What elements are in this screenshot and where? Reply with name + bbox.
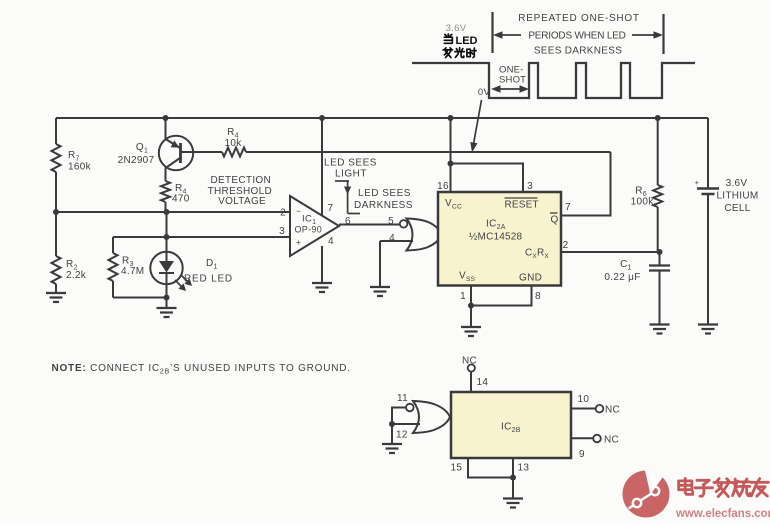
svg-text:DARKNESS: DARKNESS bbox=[354, 200, 413, 211]
svg-text:9: 9 bbox=[579, 449, 585, 460]
svg-text:12: 12 bbox=[396, 430, 408, 441]
svg-text:470: 470 bbox=[172, 194, 190, 205]
svg-text:LITHIUM: LITHIUM bbox=[716, 191, 758, 202]
svg-text:VOLTAGE: VOLTAGE bbox=[218, 196, 266, 207]
svg-text:SEES DARKNESS: SEES DARKNESS bbox=[534, 46, 622, 57]
svg-text:RED LED: RED LED bbox=[184, 274, 233, 285]
svg-text:REPEATED ONE-SHOT: REPEATED ONE-SHOT bbox=[518, 13, 639, 24]
svg-text:6: 6 bbox=[345, 216, 351, 227]
svg-text:NOTE: CONNECT IC2B’S UNUSED IN: NOTE: CONNECT IC2B’S UNUSED INPUTS TO GR… bbox=[52, 363, 351, 376]
svg-text:7: 7 bbox=[328, 203, 334, 214]
svg-text:14: 14 bbox=[477, 377, 489, 388]
svg-text:Q: Q bbox=[551, 215, 559, 226]
svg-text:2: 2 bbox=[280, 208, 286, 219]
svg-text:16: 16 bbox=[437, 181, 449, 192]
svg-text:LED SEES: LED SEES bbox=[324, 158, 377, 169]
svg-text:5: 5 bbox=[388, 216, 394, 227]
svg-text:13: 13 bbox=[518, 463, 530, 474]
svg-text:PERIODS WHEN LED: PERIODS WHEN LED bbox=[528, 31, 625, 42]
svg-text:SHOT: SHOT bbox=[499, 75, 526, 86]
svg-text:−: − bbox=[296, 206, 301, 216]
svg-text:CELL: CELL bbox=[724, 203, 750, 214]
svg-text:8: 8 bbox=[535, 291, 541, 302]
svg-text:+: + bbox=[296, 237, 301, 247]
svg-text:www.elecfans.com: www.elecfans.com bbox=[675, 506, 770, 520]
svg-text:LIGHT: LIGHT bbox=[335, 169, 367, 180]
svg-text:+: + bbox=[695, 178, 700, 187]
svg-text:NC: NC bbox=[604, 435, 619, 446]
svg-text:DETECTION: DETECTION bbox=[211, 175, 271, 186]
svg-text:10k: 10k bbox=[224, 138, 242, 149]
svg-text:OP-90: OP-90 bbox=[295, 225, 323, 235]
svg-text:10: 10 bbox=[578, 394, 590, 405]
svg-text:0.22 μF: 0.22 μF bbox=[604, 272, 640, 283]
svg-text:2: 2 bbox=[563, 240, 569, 251]
svg-text:4.7M: 4.7M bbox=[121, 266, 144, 277]
svg-text:160k: 160k bbox=[68, 162, 92, 173]
svg-text:½MC14528: ½MC14528 bbox=[469, 232, 523, 243]
svg-text:11: 11 bbox=[397, 393, 408, 404]
svg-text:NC: NC bbox=[462, 356, 477, 367]
svg-text:100k: 100k bbox=[631, 197, 655, 208]
svg-text:3: 3 bbox=[527, 181, 533, 192]
svg-text:2N2907: 2N2907 bbox=[118, 155, 155, 166]
svg-text:1: 1 bbox=[460, 291, 466, 302]
svg-text:0V: 0V bbox=[478, 87, 491, 98]
svg-text:LED SEES: LED SEES bbox=[358, 188, 411, 199]
svg-text:3.6V: 3.6V bbox=[726, 178, 748, 189]
svg-text:7: 7 bbox=[565, 202, 571, 213]
svg-text:3.6V: 3.6V bbox=[446, 23, 467, 34]
svg-text:15: 15 bbox=[451, 463, 463, 474]
svg-text:2.2k: 2.2k bbox=[66, 270, 87, 281]
svg-text:LED: LED bbox=[456, 35, 478, 47]
svg-text:4: 4 bbox=[389, 233, 395, 244]
svg-text:3: 3 bbox=[279, 226, 285, 237]
svg-text:4: 4 bbox=[328, 236, 334, 247]
svg-text:RESET: RESET bbox=[505, 200, 539, 211]
svg-text:NC: NC bbox=[605, 405, 620, 416]
svg-text:GND: GND bbox=[519, 273, 542, 284]
